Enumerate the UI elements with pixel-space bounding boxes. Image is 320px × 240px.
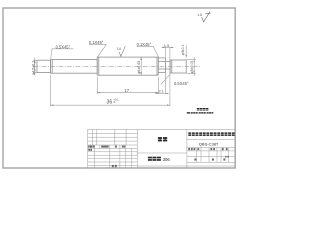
svg-text:φ4±0.1: φ4±0.1 [181, 44, 185, 55]
leader chamfer C2 [89, 45, 106, 58]
technical notes line smudge [187, 112, 214, 114]
scale value mark [225, 156, 226, 158]
leader chamfer C1 [51, 49, 74, 59]
shaft large section [97, 57, 158, 75]
title block outer [88, 129, 236, 168]
arrow 1.5 left/right outside [163, 47, 166, 49]
left header row tiny marks [88, 146, 125, 168]
arrowheads [34, 47, 195, 106]
shaft stub section phi4.5 [37, 60, 51, 72]
shaft right section phi5 [170, 60, 186, 73]
roughness symbol top right corner [202, 12, 211, 22]
dim right phi upper: line [185, 45, 187, 58]
row2 design marks [88, 149, 90, 151]
svg-text:306: 306 [163, 157, 171, 162]
svg-text:1.6: 1.6 [117, 47, 122, 51]
dim phi6 line inside large [140, 57, 142, 75]
arrow 36 left/right [50, 104, 53, 106]
material smudge + 306 [148, 157, 161, 161]
bottom-left marks [112, 165, 114, 167]
divider middle cells [137, 153, 235, 166]
part name smudge [158, 137, 167, 141]
centerline [34, 65, 201, 67]
dim right phi5 line [193, 57, 195, 76]
arrow phi6 top/bottom [140, 57, 142, 60]
arrow 17 left/right [97, 92, 100, 94]
signature area rows left [88, 148, 138, 165]
svg-text:φ5±0.05: φ5±0.05 [190, 61, 194, 74]
sheets row marks [194, 158, 196, 160]
svg-text:0.5X45°: 0.5X45° [56, 44, 71, 49]
signature area columns [90, 145, 132, 168]
svg-text:17: 17 [124, 88, 129, 93]
dimension graphics [33, 45, 196, 107]
ext line groove left tall [164, 47, 166, 94]
company column divider [186, 129, 188, 168]
chamfer lines large [99, 57, 157, 75]
drawing frame border [3, 8, 235, 168]
arrow right phi5 top/bottom [193, 59, 195, 62]
svg-text:36: 36 [107, 99, 113, 105]
right subgrid columns [197, 148, 229, 163]
svg-text:φ4.5±0.1: φ4.5±0.1 [31, 61, 35, 75]
roughness symbol on large section [119, 46, 125, 56]
arrow right phi upper [185, 55, 187, 58]
dim 2.1 line [156, 92, 169, 94]
svg-text:0.1X45°: 0.1X45° [137, 42, 152, 47]
dim right phi5: ext lines [187, 59, 196, 73]
leader chamfer C3 [137, 46, 159, 57]
company name smudge [188, 132, 234, 136]
arrow phi4.5 top/bottom [34, 60, 36, 63]
ext line groove right tall [169, 47, 171, 106]
title block grid [88, 129, 236, 168]
shaft neck section [158, 58, 165, 73]
dim phi4.5 left: extension ticks [33, 60, 37, 72]
leader chamfer C4 bottom right [161, 74, 170, 84]
svg-text:1.6: 1.6 [197, 13, 202, 17]
svg-text:φ6±0.05: φ6±0.05 [137, 61, 141, 74]
svg-text:1.5: 1.5 [164, 43, 170, 48]
arrow 2.1 outside [156, 93, 159, 94]
ext line dim 36 left [49, 75, 51, 106]
dimension texts [31, 40, 194, 105]
revision area rows upper left [88, 133, 138, 145]
dim 36 line [50, 104, 169, 106]
chamfer line right section [171, 60, 173, 73]
svg-text:0.5X45°: 0.5X45° [174, 81, 189, 86]
ext lines dim 17 [97, 77, 158, 94]
shaft mid section [51, 60, 98, 74]
page background [0, 0, 240, 180]
dim 1.5 line top [162, 46, 174, 48]
right subgrid header marks [188, 148, 229, 161]
shaft groove section [158, 61, 170, 69]
svg-text:0.1X45°: 0.1X45° [89, 40, 104, 45]
svg-text:2.1: 2.1 [159, 90, 164, 94]
company rows [187, 140, 235, 163]
revision area columns upper left [92, 129, 126, 145]
technical notes title smudge [197, 108, 209, 111]
svg-text:QBS-C38T: QBS-C38T [199, 142, 219, 147]
main divider name column [136, 129, 138, 168]
dim phi4.5 line [34, 58, 36, 76]
chamfer line mid [51, 60, 53, 74]
dim 17 line [97, 92, 158, 94]
